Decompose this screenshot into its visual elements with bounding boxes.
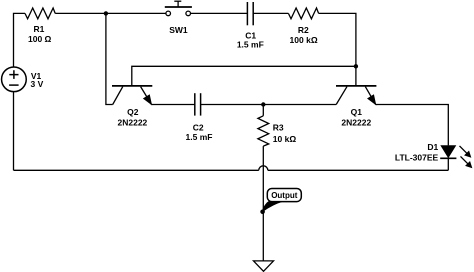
svg-text:1.5 mF: 1.5 mF (237, 40, 264, 50)
wire V1 bottom down to bottom rail (13, 92, 15, 171)
wire junction down to Q2 collector (106, 13, 113, 104)
resistor R1 (25, 8, 55, 19)
svg-text:Output: Output (271, 191, 298, 200)
wire SW1 to C1 (191, 12, 248, 14)
svg-text:100 kΩ: 100 kΩ (290, 35, 318, 45)
capacitor C2 (195, 93, 201, 115)
svg-text:D1: D1 (427, 142, 438, 152)
wire bottom rail left segment (14, 169, 259, 171)
voltage source V1 (2, 67, 27, 92)
transistor Q1 (336, 86, 376, 105)
svg-text:2N2222: 2N2222 (118, 117, 148, 127)
svg-text:Q2: Q2 (127, 107, 139, 117)
svg-text:C2: C2 (193, 123, 204, 133)
node junction dot at Q1 base / cross wire (354, 64, 358, 68)
wire R1 to SW1 (55, 12, 166, 14)
svg-text:2N2222: 2N2222 (341, 117, 371, 127)
svg-text:100 Ω: 100 Ω (28, 34, 52, 44)
capacitor C1 (247, 2, 253, 25)
LED D1 light arrow 2 (461, 156, 472, 167)
wire bottom rail right segment (268, 169, 449, 171)
output flag box (267, 189, 301, 202)
ground symbol (254, 261, 274, 271)
node junction dot at R1/SW1/Q2-collector (104, 11, 108, 15)
node junction dot at R3 top (261, 102, 265, 106)
svg-text:R3: R3 (273, 122, 284, 132)
transistor Q2 (112, 86, 152, 105)
wire C1 to R2 (253, 12, 288, 14)
svg-text:R2: R2 (298, 25, 309, 35)
wire Q1 emitter to LED D1 (376, 105, 449, 146)
wire LED cathode down to bottom rail (447, 158, 449, 170)
wire C2 to Q1 collector (201, 104, 337, 106)
node junction dot at output tap (260, 210, 265, 215)
wire Q2 emitter to C2 (152, 104, 195, 106)
svg-text:R1: R1 (33, 24, 44, 34)
wire output net vertical from R3 through hop to ground (262, 146, 264, 261)
svg-text:3 V: 3 V (31, 79, 44, 89)
switch SW1 (165, 1, 192, 15)
wire cross base line from Q2 base to Q1 base net (132, 66, 356, 86)
svg-text:1.5 mF: 1.5 mF (186, 132, 213, 142)
svg-text:SW1: SW1 (169, 25, 188, 35)
LED D1 light arrow 1 (460, 146, 471, 157)
LED D1 diode triangle (441, 146, 455, 158)
svg-text:Q1: Q1 (351, 107, 363, 117)
svg-text:10 kΩ: 10 kΩ (273, 134, 297, 144)
wire R2 right then down to Q1 base (319, 13, 356, 86)
resistor R3 (258, 105, 269, 147)
wire top-left corner from V1 to R1 (14, 13, 26, 67)
resistor R2 (288, 8, 318, 19)
output flag pointer tail (262, 201, 284, 212)
LED D1 cathode bar (440, 157, 456, 159)
svg-text:LTL-307EE: LTL-307EE (395, 153, 439, 163)
wire hop over output net (259, 166, 268, 171)
